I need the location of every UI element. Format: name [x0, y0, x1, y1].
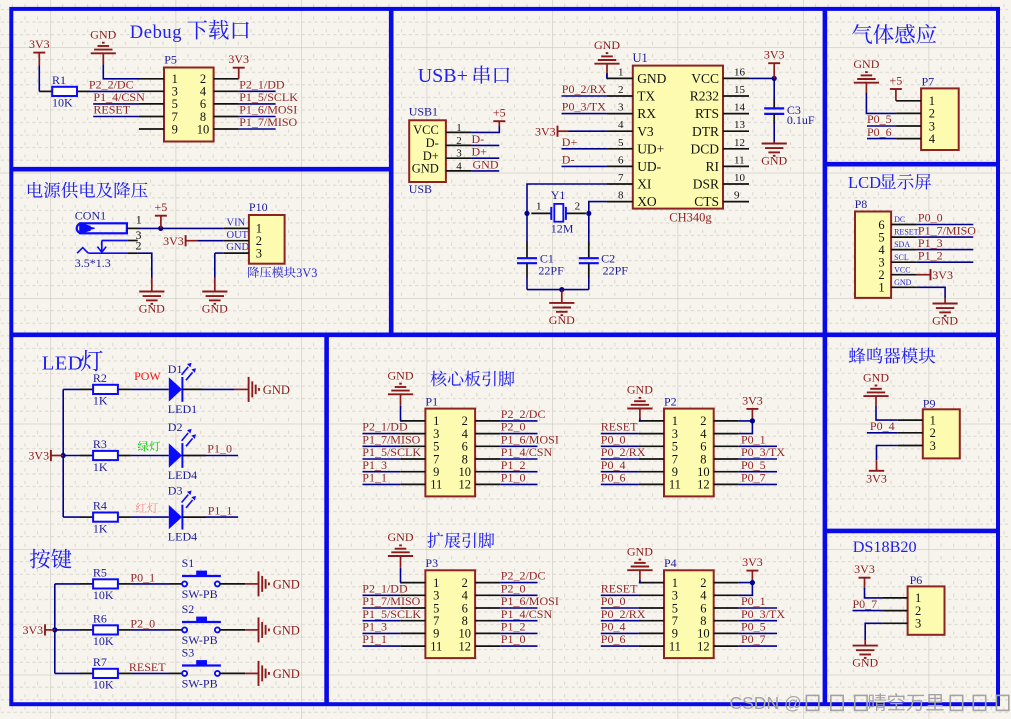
- CON1 pin 1: [127, 227, 140, 229]
- svg-text:GND: GND: [273, 577, 300, 591]
- svg-text:R3: R3: [93, 437, 107, 451]
- CON1 pin 2: [127, 252, 138, 254]
- svg-text:GND: GND: [863, 370, 889, 384]
- svg-text:P1_2: P1_2: [918, 248, 943, 262]
- power +5: [155, 215, 167, 217]
- wire R5 to S1: [131, 583, 169, 585]
- svg-text:LED: LED: [42, 353, 83, 375]
- wires P4 left: [601, 594, 639, 596]
- svg-text:10K: 10K: [93, 588, 114, 602]
- svg-text:10K: 10K: [52, 96, 73, 110]
- svg-text:12: 12: [459, 639, 472, 653]
- svg-text:P1_1: P1_1: [362, 632, 387, 646]
- svg-text:RESET: RESET: [129, 660, 166, 674]
- divider vertical x=825 right column: [823, 9, 828, 704]
- wires P4 right: [739, 607, 777, 609]
- svg-text:P0_7: P0_7: [853, 597, 878, 611]
- divider horizontal y=164 right column: [825, 162, 998, 167]
- wire P0_5 to P7 pin3: [867, 125, 896, 127]
- svg-text:P0_1: P0_1: [130, 570, 155, 584]
- wire GND to P4 pin1: [639, 580, 640, 582]
- svg-text:11: 11: [669, 478, 681, 492]
- wire S3 to GND: [220, 672, 245, 674]
- svg-text:P0_6: P0_6: [601, 632, 626, 646]
- svg-text:1: 1: [456, 122, 462, 134]
- wire USB1 pin4: [472, 170, 500, 172]
- svg-text:GND: GND: [852, 656, 878, 670]
- svg-text:R5: R5: [93, 565, 107, 579]
- svg-text:GND: GND: [226, 242, 249, 253]
- wire crystal right down: [588, 213, 590, 241]
- resistor R3 1K: [63, 455, 80, 457]
- svg-text:3V3: 3V3: [29, 37, 50, 51]
- wire R1 to P5 pin3: [90, 90, 139, 92]
- svg-text:DS18B20: DS18B20: [853, 538, 917, 556]
- wire R2 to D1: [131, 388, 169, 390]
- svg-text:D-: D-: [562, 152, 575, 166]
- svg-text:UD+: UD+: [637, 141, 664, 156]
- svg-text:P6: P6: [910, 573, 923, 587]
- svg-text:V3: V3: [637, 124, 654, 139]
- wire R7 to S3: [131, 672, 169, 674]
- label 红灯: [136, 503, 158, 513]
- svg-text:0.1uF: 0.1uF: [787, 113, 815, 127]
- wire GND to U1 pin1: [606, 73, 608, 78]
- wire R4 to D3: [131, 516, 169, 518]
- label 降压模块3V3: [248, 267, 295, 278]
- svg-text:1: 1: [136, 212, 142, 226]
- svg-text:12: 12: [459, 478, 472, 492]
- capacitor C3 0.1uF: [773, 99, 775, 109]
- svg-text:+5: +5: [493, 106, 506, 120]
- ground GND above P2: [639, 409, 641, 420]
- ground GND above U1: [606, 64, 608, 74]
- wire C1 down: [526, 278, 528, 290]
- switch S2 SW-PB: [182, 627, 187, 632]
- svg-text:LED1: LED1: [168, 402, 197, 416]
- wire P9 pin3 to 3V3: [877, 446, 898, 461]
- svg-text:12: 12: [697, 639, 710, 653]
- ground GND Debug: [102, 53, 104, 64]
- svg-text:P3: P3: [425, 556, 438, 570]
- svg-text:+5: +5: [890, 73, 903, 87]
- ground GND under CON1: [151, 278, 153, 292]
- svg-text:15: 15: [734, 84, 746, 96]
- power 3V3 ds18b20: [859, 577, 871, 579]
- svg-text:SW-PB: SW-PB: [182, 587, 218, 601]
- svg-text:CH340g: CH340g: [669, 211, 712, 225]
- ground GND S1 row: [258, 571, 260, 596]
- ground GND below P8: [944, 298, 946, 304]
- wires P2 right: [739, 445, 777, 447]
- wire P5 left pins 5,7: [93, 103, 139, 105]
- svg-text:12M: 12M: [551, 222, 574, 236]
- svg-text:RESET: RESET: [93, 103, 130, 117]
- junction dot 3V3 C3: [772, 76, 777, 81]
- power 3V3 LED section: [50, 450, 52, 461]
- svg-text:R6: R6: [93, 611, 107, 625]
- svg-text:UD-: UD-: [637, 159, 661, 174]
- svg-text:P0_7: P0_7: [741, 471, 766, 485]
- junction dot crystal right: [586, 211, 591, 216]
- svg-text:P0_6: P0_6: [601, 471, 626, 485]
- power +5 above USB1: [493, 120, 505, 122]
- svg-text:GND: GND: [932, 314, 958, 328]
- capacitor C1 22PF: [526, 242, 528, 259]
- wire U1 pin7 to crystal: [527, 184, 607, 213]
- LED D3 LED4: [169, 505, 182, 529]
- wire 3V3 down to C3: [773, 78, 775, 98]
- label 绿灯: [138, 441, 160, 452]
- svg-text:3V3: 3V3: [866, 471, 887, 485]
- ground GND above P3: [400, 556, 402, 567]
- svg-text:4: 4: [456, 160, 462, 172]
- junction dot LED trunk: [61, 453, 66, 458]
- resistor R5 10K: [55, 583, 81, 585]
- wire P2 pin2 to 3V3 and pin4: [739, 421, 753, 434]
- wire LED trunk: [62, 389, 64, 517]
- wire 3V3 to P6 pin1: [865, 588, 883, 598]
- svg-text:13: 13: [734, 119, 746, 131]
- svg-text:GND: GND: [273, 623, 300, 637]
- svg-text:P1: P1: [425, 394, 438, 408]
- svg-text:DCD: DCD: [690, 141, 719, 156]
- junction dot button trunk: [52, 627, 57, 632]
- junction dot bottom rail: [559, 287, 564, 292]
- svg-text:VCC: VCC: [691, 71, 719, 86]
- divider horizontal y=335 full width: [11, 332, 998, 337]
- svg-text:P10: P10: [249, 200, 268, 214]
- svg-text:11: 11: [669, 639, 681, 653]
- svg-text:P8: P8: [855, 197, 868, 211]
- wire P0_6 to P7 pin4: [867, 138, 896, 140]
- svg-text:D1: D1: [168, 362, 183, 376]
- svg-text:3V3: 3V3: [742, 393, 763, 407]
- wires P8 pins 6,5,4,3: [917, 224, 973, 226]
- svg-text:10: 10: [734, 172, 746, 184]
- svg-text:DTR: DTR: [692, 124, 719, 139]
- svg-text:RTS: RTS: [695, 106, 719, 121]
- svg-text:LED4: LED4: [168, 468, 197, 482]
- svg-text:SDA: SDA: [894, 240, 910, 249]
- svg-text:R7: R7: [93, 655, 107, 669]
- power 3V3 top-left: [33, 52, 45, 54]
- junction dot +5: [158, 226, 163, 231]
- ground GND S3 row: [258, 661, 260, 686]
- svg-text:2: 2: [575, 200, 581, 212]
- svg-text:USB: USB: [409, 182, 432, 196]
- svg-text:USB1: USB1: [409, 105, 438, 119]
- svg-text:11: 11: [430, 639, 442, 653]
- wire crystal left down: [526, 213, 528, 241]
- svg-text:16: 16: [734, 66, 746, 78]
- svg-text:LCD: LCD: [848, 173, 881, 192]
- svg-text:GND: GND: [627, 383, 653, 397]
- wire P5 right pins: [239, 90, 276, 92]
- svg-text:GND: GND: [761, 154, 787, 168]
- wire P0_4 to P9 pin2: [867, 432, 898, 434]
- svg-text:P0_2/RX: P0_2/RX: [562, 82, 607, 96]
- title 电源供电及降压: [28, 182, 148, 198]
- wire bottom rail crystal: [527, 289, 589, 291]
- wire D3 out: [182, 516, 206, 518]
- svg-text:1: 1: [878, 281, 884, 295]
- wire D2 out: [182, 455, 206, 457]
- wires P3 left: [363, 594, 401, 596]
- svg-text:TX: TX: [637, 89, 655, 104]
- power 3V3 buttons: [44, 624, 46, 635]
- wire 3V3 to U1 pin4: [569, 130, 607, 132]
- svg-text:P2_0: P2_0: [130, 616, 155, 630]
- junction dot P4 3V3: [750, 580, 755, 585]
- wire U1 pin8 to crystal: [589, 202, 607, 214]
- svg-text:3V3: 3V3: [228, 52, 249, 66]
- svg-text:22PF: 22PF: [603, 264, 629, 278]
- svg-text:SCL: SCL: [894, 253, 909, 262]
- capacitor C2 22PF: [588, 242, 590, 259]
- svg-text:12: 12: [697, 478, 710, 492]
- svg-text:P1_7/MISO: P1_7/MISO: [239, 115, 297, 129]
- svg-text:GND: GND: [637, 71, 666, 86]
- wire CON1 pin2 to GND: [138, 253, 152, 278]
- svg-text:P0_7: P0_7: [741, 632, 766, 646]
- wire U1 pin2: [562, 95, 607, 97]
- svg-text:R2: R2: [93, 371, 107, 385]
- svg-text:+5: +5: [155, 200, 168, 214]
- svg-text:VCC: VCC: [413, 123, 439, 137]
- svg-text:3V3: 3V3: [535, 124, 556, 138]
- svg-text:3V3: 3V3: [296, 266, 317, 280]
- svg-text:CON1: CON1: [75, 209, 106, 223]
- power 3V3 at P4: [746, 570, 758, 572]
- svg-text:8: 8: [618, 190, 624, 202]
- svg-text:GND: GND: [273, 667, 300, 681]
- svg-text:7: 7: [618, 172, 624, 184]
- svg-text:11: 11: [430, 478, 442, 492]
- svg-text:S2: S2: [182, 602, 195, 616]
- svg-text:RESET: RESET: [894, 228, 919, 237]
- svg-text:12: 12: [734, 137, 745, 149]
- svg-text:Debug: Debug: [130, 23, 182, 43]
- svg-text:VIN: VIN: [227, 218, 246, 229]
- wire U1 pin3: [562, 113, 607, 115]
- svg-text:R4: R4: [93, 499, 107, 513]
- title 蜂鸣器模块: [849, 347, 935, 363]
- svg-text:3V3: 3V3: [28, 449, 49, 463]
- svg-text:P4: P4: [664, 556, 677, 570]
- wires P3 right: [500, 582, 537, 584]
- svg-text:USB+: USB+: [418, 65, 468, 87]
- svg-text:VCC: VCC: [894, 265, 910, 274]
- svg-text:P7: P7: [922, 74, 935, 88]
- ground GND below C3: [773, 142, 775, 144]
- wire P8 GND pin1: [917, 287, 945, 298]
- svg-text:P1_0: P1_0: [501, 632, 526, 646]
- svg-text:GND: GND: [853, 57, 879, 71]
- svg-text:R232: R232: [690, 89, 719, 104]
- svg-text:DC: DC: [894, 215, 905, 224]
- svg-text:3.5*1.3: 3.5*1.3: [75, 256, 111, 270]
- CON1 lever and tip: [77, 248, 88, 254]
- ground GND ds18b20: [864, 640, 866, 646]
- svg-text:3: 3: [456, 148, 462, 160]
- wire D1 to GND: [182, 388, 202, 390]
- divider left-column horizontal y=169: [11, 167, 391, 172]
- svg-text:P1_1: P1_1: [208, 503, 233, 517]
- svg-text:9: 9: [172, 122, 178, 136]
- wire C2 down: [588, 278, 590, 290]
- wire S1 to GND: [220, 583, 245, 585]
- svg-text:3V3: 3V3: [163, 234, 184, 248]
- svg-text:5: 5: [618, 137, 624, 149]
- svg-text:GND: GND: [894, 278, 912, 287]
- svg-text:P1_0: P1_0: [501, 471, 526, 485]
- wire USB1 pin3: [472, 157, 500, 159]
- resistor R4 1K: [63, 516, 80, 518]
- wire GND to P5 pin1: [103, 64, 139, 79]
- svg-text:GND: GND: [202, 302, 228, 316]
- svg-text:GND: GND: [627, 544, 653, 558]
- ground GND below crystal: [561, 290, 563, 303]
- svg-text:4: 4: [929, 132, 936, 146]
- ground GND S2 row: [258, 617, 260, 642]
- wire GND to P2 pin1: [639, 419, 640, 421]
- svg-text:XI: XI: [637, 177, 652, 192]
- svg-text:GND: GND: [594, 38, 620, 52]
- CON1 sleeve link: [102, 240, 127, 242]
- wire 3V3 to P10 pin2: [197, 240, 224, 242]
- junction dot P2 3V3: [750, 418, 755, 423]
- svg-text:1K: 1K: [93, 394, 108, 408]
- svg-text:GND: GND: [549, 313, 575, 327]
- resistor R2 1K: [63, 388, 80, 390]
- power 3V3 at P8 VCC: [930, 269, 932, 280]
- ground GND above P1: [400, 394, 402, 405]
- wire USB1 pin1 to +5: [472, 126, 500, 132]
- wire R6 to S2: [131, 629, 169, 631]
- svg-text:SW-PB: SW-PB: [182, 676, 218, 690]
- svg-text:2: 2: [618, 84, 624, 96]
- power 3V3 at P2: [746, 408, 758, 410]
- ground GND above P4: [639, 570, 641, 581]
- svg-text:10K: 10K: [93, 634, 114, 648]
- svg-text:GND: GND: [473, 157, 499, 171]
- svg-text:GND: GND: [263, 383, 290, 397]
- wire GND to P1 pin1: [399, 406, 401, 421]
- svg-text:22PF: 22PF: [538, 264, 564, 278]
- wires P1 left: [363, 433, 401, 435]
- title 按键: [30, 549, 72, 569]
- wire GND to P7 pin2: [866, 93, 896, 113]
- svg-text:1K: 1K: [93, 460, 108, 474]
- svg-text:Y1: Y1: [551, 188, 566, 202]
- svg-text:P0_6: P0_6: [867, 125, 892, 139]
- svg-text:GND: GND: [388, 369, 414, 383]
- wire R3 to D2: [131, 455, 169, 457]
- svg-text:P1_1: P1_1: [362, 471, 387, 485]
- ground GND gas: [865, 83, 867, 94]
- svg-text:P0_3/TX: P0_3/TX: [562, 100, 606, 114]
- wire S2 to GND: [220, 629, 245, 631]
- svg-text:DSR: DSR: [693, 177, 719, 192]
- svg-text:LED4: LED4: [168, 530, 197, 544]
- svg-text:R1: R1: [52, 73, 66, 87]
- svg-text:11: 11: [734, 154, 745, 166]
- svg-text:P1_0: P1_0: [207, 442, 232, 456]
- power 3V3 at U1 V3: [557, 126, 559, 137]
- svg-text:1: 1: [536, 200, 542, 212]
- svg-text:RX: RX: [637, 106, 656, 121]
- divider horizontal y=531 right column: [825, 529, 998, 534]
- wire C3 down: [773, 124, 775, 144]
- svg-text:GND: GND: [139, 302, 165, 316]
- resistor R1 10K: [39, 90, 52, 92]
- svg-text:RI: RI: [706, 159, 720, 174]
- ground GND buzzer: [875, 396, 877, 407]
- svg-text:XO: XO: [637, 194, 657, 209]
- svg-text:P0_4: P0_4: [870, 419, 895, 433]
- power 3V3 to P10 OUT: [185, 235, 187, 246]
- svg-text:D3: D3: [168, 484, 183, 498]
- svg-text:3V3: 3V3: [854, 562, 875, 576]
- power 3V3 right of U1: [768, 62, 780, 64]
- svg-text:9: 9: [734, 190, 740, 202]
- svg-text:P5: P5: [164, 53, 177, 67]
- LED D2 LED4: [169, 443, 182, 467]
- wire U1 pin16 to 3V3: [749, 77, 774, 79]
- wire U1 pin6: [562, 165, 607, 167]
- CON1 pin 3: [127, 240, 138, 242]
- svg-text:2: 2: [456, 135, 462, 147]
- wires P2 left: [601, 433, 639, 435]
- svg-text:3V3: 3V3: [932, 268, 953, 282]
- ground GND LED1 row: [248, 377, 250, 402]
- switch S1 SW-PB: [182, 581, 187, 586]
- wire P10 GND pin3: [215, 252, 224, 254]
- resistor R6 10K: [55, 629, 81, 631]
- wire P6 pin3 to GND: [865, 623, 882, 640]
- power 3V3 below buzzer: [869, 470, 884, 472]
- svg-text:S3: S3: [182, 645, 195, 659]
- wire P0_7 to P6 pin2: [853, 610, 883, 612]
- svg-text:U1: U1: [633, 51, 648, 65]
- svg-text:CSDN @: CSDN @: [730, 693, 802, 713]
- power +5 gas: [890, 88, 902, 90]
- wire CON1 pin1 to P10 VIN: [140, 227, 224, 229]
- wire U1 pin5: [562, 148, 607, 150]
- svg-text:POW: POW: [134, 369, 161, 383]
- wire GND to P9 pin1: [876, 407, 898, 421]
- svg-text:3V3: 3V3: [742, 555, 763, 569]
- junction dot crystal left: [524, 211, 529, 216]
- svg-text:CTS: CTS: [694, 194, 719, 209]
- svg-text:3V3: 3V3: [764, 48, 785, 62]
- LED D1 LED1: [169, 377, 182, 401]
- svg-text:P2: P2: [664, 394, 677, 408]
- switch S3 SW-PB: [182, 671, 187, 676]
- ground GND under P10: [214, 278, 216, 292]
- svg-text:14: 14: [734, 102, 746, 114]
- svg-text:3: 3: [256, 246, 262, 260]
- svg-text:S1: S1: [182, 556, 195, 570]
- svg-text:10K: 10K: [93, 678, 114, 692]
- divider vertical x=326 bottom-left box: [324, 335, 329, 704]
- wire button trunk: [54, 584, 56, 674]
- svg-text:D+: D+: [562, 135, 578, 149]
- title 核心板引脚: [430, 371, 514, 387]
- svg-text:OUT: OUT: [227, 230, 249, 241]
- svg-text:1: 1: [618, 66, 624, 78]
